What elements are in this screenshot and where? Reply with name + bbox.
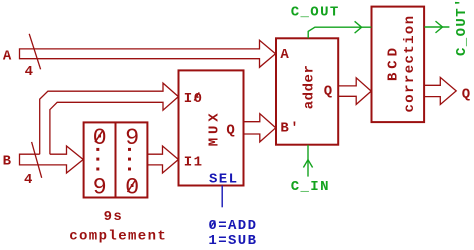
block U3 adder xyxy=(276,38,338,144)
arrowhead C_IN xyxy=(303,160,312,168)
svg-text:BCD: BCD xyxy=(386,44,402,81)
svg-text:4: 4 xyxy=(25,64,35,80)
dots right column xyxy=(128,148,131,151)
svg-text:A: A xyxy=(280,47,290,63)
svg-text:0=ADD: 0=ADD xyxy=(208,218,257,234)
slash of zero bottom-right table cell xyxy=(128,180,136,192)
slash of zero in I0 xyxy=(194,92,199,100)
slash of zero top-left table cell xyxy=(95,130,103,142)
svg-text:Q: Q xyxy=(324,84,334,100)
svg-text:I1: I1 xyxy=(184,154,204,170)
svg-text:adder: adder xyxy=(302,65,318,110)
arrowhead C_OUT' xyxy=(436,21,443,33)
wire C_OUT' from BCD correction xyxy=(424,26,449,28)
bus: MUX Q output to adder B' xyxy=(244,114,276,142)
bus B width slash xyxy=(32,142,42,178)
svg-text:0: 0 xyxy=(93,125,107,152)
svg-text:0: 0 xyxy=(125,175,139,202)
bus B xyxy=(20,146,84,173)
dots left column xyxy=(96,148,99,151)
svg-text:complement: complement xyxy=(69,228,167,244)
bus: 9s complement output to MUX I1 xyxy=(147,146,178,173)
wire SEL (blue) xyxy=(221,186,223,208)
bus B branch to MUX I0 xyxy=(40,83,179,154)
bus A width slash xyxy=(29,34,40,70)
svg-text:1=SUB: 1=SUB xyxy=(208,233,257,249)
svg-text:9: 9 xyxy=(125,125,139,152)
svg-text:MUX: MUX xyxy=(207,109,223,146)
svg-text:C_OUT: C_OUT xyxy=(291,5,340,21)
bus A xyxy=(20,40,276,67)
svg-text:C_IN: C_IN xyxy=(291,179,330,195)
wire C_OUT from adder to BCD correction xyxy=(308,27,371,38)
slash of zero in 0=ADD xyxy=(210,221,215,228)
bus: adder Q output to BCD correction xyxy=(338,78,371,105)
block U4 BCD correction xyxy=(372,7,425,123)
bus: BCD correction Q output xyxy=(424,77,456,104)
svg-text:B': B' xyxy=(280,120,300,136)
svg-text:B: B xyxy=(3,153,13,169)
wire C_IN into adder xyxy=(307,145,309,177)
svg-text:SEL: SEL xyxy=(209,171,238,187)
svg-text:C_OUT': C_OUT' xyxy=(454,0,470,56)
svg-text:Q: Q xyxy=(226,123,236,139)
svg-text:I0: I0 xyxy=(184,91,204,107)
svg-text:correction: correction xyxy=(402,14,418,112)
svg-text:A: A xyxy=(3,48,13,64)
svg-text:Q: Q xyxy=(462,86,472,102)
svg-text:4: 4 xyxy=(24,172,34,188)
svg-text:9s: 9s xyxy=(104,209,124,225)
block U1 9s complement xyxy=(84,122,148,197)
block U2 MUX xyxy=(179,70,244,185)
arrowhead C_OUT xyxy=(355,21,362,33)
svg-text:9: 9 xyxy=(93,175,107,202)
